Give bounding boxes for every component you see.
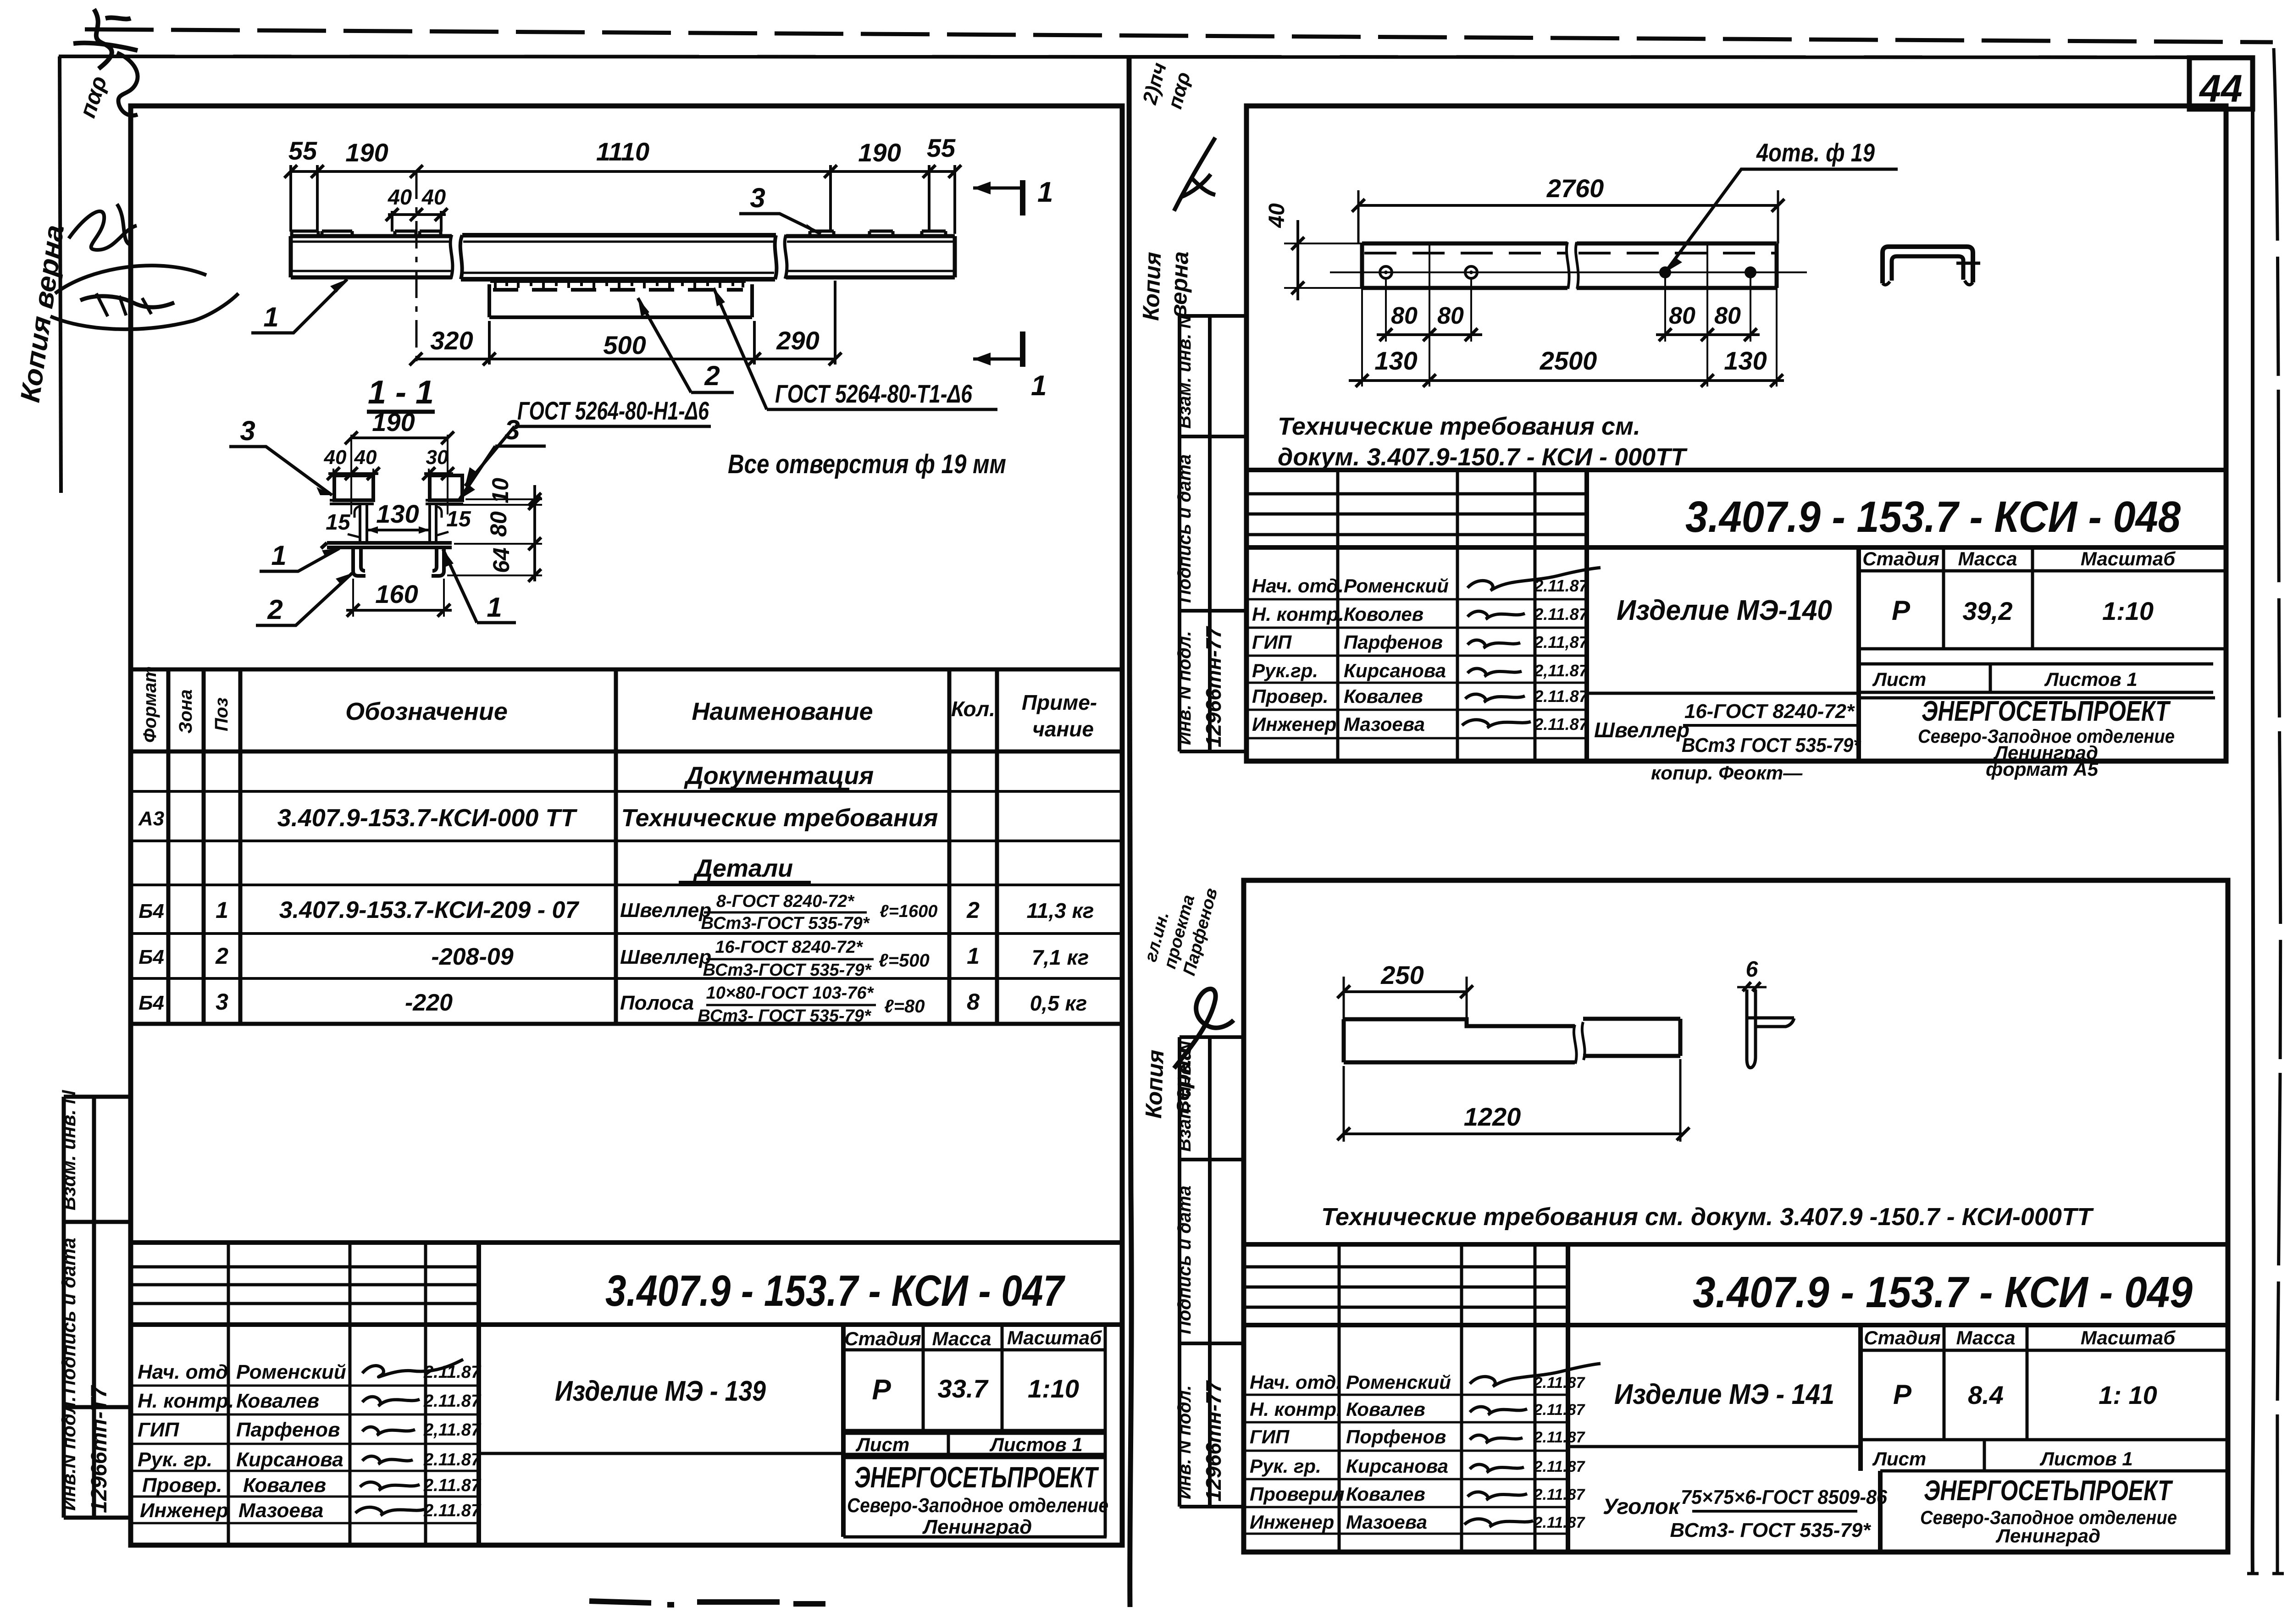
svg-text:1: 1 bbox=[487, 592, 502, 623]
svg-text:Кол.: Кол. bbox=[951, 697, 995, 721]
svg-text:3.407.9-153.7-КСИ-000 ТТ: 3.407.9-153.7-КСИ-000 ТТ bbox=[277, 804, 578, 832]
left stamp column boxes bbox=[64, 1097, 131, 1518]
handwriting signature squiggle left bbox=[69, 204, 137, 250]
svg-text:Взαм. инв. N: Взαм. инв. N bbox=[58, 1089, 79, 1210]
svg-text:3: 3 bbox=[216, 989, 228, 1015]
svg-text:40: 40 bbox=[421, 185, 446, 209]
svg-text:1:10: 1:10 bbox=[1028, 1374, 1079, 1403]
svg-text:ЭНЕРГОСЕТЬПРОЕКТ: ЭНЕРГОСЕТЬПРОЕКТ bbox=[1924, 1475, 2173, 1507]
svg-text:130: 130 bbox=[1374, 346, 1417, 375]
right sheet2 frame bbox=[1244, 880, 2228, 1552]
svg-text:Н. контр.: Н. контр. bbox=[138, 1390, 234, 1412]
svg-text:15: 15 bbox=[326, 510, 351, 535]
svg-text:2.11.87: 2.11.87 bbox=[1534, 1486, 1586, 1503]
svg-text:3.407.9 - 153.7 - КСИ - 048: 3.407.9 - 153.7 - КСИ - 048 bbox=[1685, 492, 2181, 541]
svg-text:Р: Р bbox=[1892, 595, 1911, 626]
svg-text:2.11.87: 2.11.87 bbox=[423, 1450, 482, 1469]
svg-text:1:10: 1:10 bbox=[2102, 597, 2154, 625]
svg-text:Полоса: Полоса bbox=[620, 992, 694, 1014]
svg-text:290: 290 bbox=[776, 326, 819, 355]
МЭ-140 holes bbox=[1380, 266, 1392, 278]
svg-text:2.11.87: 2.11.87 bbox=[423, 1476, 482, 1495]
svg-text:190: 190 bbox=[372, 408, 415, 436]
svg-text:2: 2 bbox=[215, 943, 228, 969]
svg-text:ГИП: ГИП bbox=[138, 1419, 180, 1441]
svg-text:формат А5: формат А5 bbox=[1986, 758, 2099, 780]
svg-text:ГИП: ГИП bbox=[1250, 1426, 1290, 1447]
svg-text:Масса: Масса bbox=[1956, 1327, 2016, 1348]
svg-text:Кирсанова: Кирсанова bbox=[236, 1448, 343, 1471]
svg-text:Обозначение: Обозначение bbox=[345, 698, 508, 725]
svg-text:Рук. гр.: Рук. гр. bbox=[138, 1448, 212, 1471]
svg-text:40: 40 bbox=[388, 185, 412, 209]
pad plates left (plan) bbox=[292, 231, 352, 236]
svg-text:Взам. инв. N: Взам. инв. N bbox=[1174, 315, 1195, 429]
svg-text:3.407.9 - 153.7 - КСИ - 047: 3.407.9 - 153.7 - КСИ - 047 bbox=[605, 1266, 1066, 1315]
channel bar left segment (plan) bbox=[291, 235, 453, 279]
svg-text:ВСт3 ГОСТ 535-79*: ВСт3 ГОСТ 535-79* bbox=[1682, 734, 1861, 757]
right title1 grid bbox=[1246, 470, 2226, 761]
svg-text:Лист: Лист bbox=[1872, 1448, 1926, 1469]
svg-text:Ковалев: Ковалев bbox=[1344, 685, 1423, 707]
МЭ-140 dims 80 80 right bbox=[1656, 333, 1760, 336]
svg-text:Все отверстия ф 19 мм: Все отверстия ф 19 мм bbox=[728, 449, 1006, 479]
svg-text:Формат: Формат bbox=[140, 666, 160, 743]
svg-text:0,5 кг: 0,5 кг bbox=[1030, 991, 1087, 1015]
svg-text:Зона: Зона bbox=[176, 689, 196, 734]
svg-text:Р: Р bbox=[1893, 1379, 1912, 1410]
svg-text:2: 2 bbox=[267, 594, 282, 625]
МЭ-140 dim 2760 bbox=[1358, 204, 1778, 207]
svg-text:320: 320 bbox=[430, 326, 473, 355]
svg-text:1: 1 bbox=[271, 540, 286, 571]
svg-text:Изделие МЭ - 141: Изделие МЭ - 141 bbox=[1614, 1379, 1834, 1410]
svg-text:160: 160 bbox=[375, 580, 418, 608]
svg-text:2760: 2760 bbox=[1546, 174, 1604, 203]
svg-text:Провер.: Провер. bbox=[142, 1474, 222, 1497]
svg-text:ℓ=500: ℓ=500 bbox=[879, 950, 930, 971]
section: plate pos3 right bbox=[430, 475, 462, 500]
svg-text:2.11.87: 2.11.87 bbox=[1534, 1429, 1586, 1446]
svg-text:2: 2 bbox=[966, 897, 980, 923]
svg-text:Роменский: Роменский bbox=[1344, 575, 1449, 597]
svg-text:Уголок: Уголок bbox=[1603, 1495, 1681, 1519]
plan axis centerline bbox=[415, 171, 418, 367]
svg-text:2.11.87: 2.11.87 bbox=[423, 1392, 482, 1411]
svg-text:Копия: Копия bbox=[1138, 252, 1166, 321]
left sheet frame bbox=[131, 106, 1122, 1545]
svg-text:1 - 1: 1 - 1 bbox=[368, 374, 434, 411]
svg-text:Ковалев: Ковалев bbox=[236, 1390, 319, 1412]
svg-text:12966тн-77: 12966тн-77 bbox=[1202, 1380, 1225, 1502]
svg-text:Инженер: Инженер bbox=[1250, 1511, 1334, 1533]
svg-text:Инв.N подл.: Инв.N подл. bbox=[58, 1396, 79, 1511]
svg-text:Приме-: Приме- bbox=[1022, 690, 1097, 714]
section dim 30 bbox=[424, 472, 453, 475]
svg-text:6: 6 bbox=[1746, 957, 1758, 982]
svg-text:Изделие МЭ - 139: Изделие МЭ - 139 bbox=[555, 1375, 766, 1407]
svg-text:Роменский: Роменский bbox=[1346, 1371, 1451, 1393]
section dim 40 40 bbox=[328, 472, 378, 475]
svg-text:2,11.87: 2,11.87 bbox=[423, 1420, 482, 1440]
channel bar right segment (plan) bbox=[785, 235, 955, 279]
svg-text:12966тн-77: 12966тн-77 bbox=[1202, 625, 1225, 747]
bottom handwritten dashes bbox=[589, 1601, 825, 1605]
svg-text:190: 190 bbox=[858, 138, 901, 167]
svg-text:Стадия: Стадия bbox=[1864, 1327, 1940, 1348]
stamp arc scribble bbox=[50, 265, 238, 329]
left page fold line bbox=[60, 56, 61, 493]
svg-text:ВСт3-ГОСТ 535-79*: ВСт3-ГОСТ 535-79* bbox=[701, 914, 870, 933]
right title1 signatures bbox=[1468, 568, 1601, 591]
svg-text:Наименование: Наименование bbox=[692, 698, 873, 725]
svg-text:2.11.87: 2.11.87 bbox=[1534, 687, 1589, 706]
svg-text:Швеллер: Швеллер bbox=[620, 946, 711, 968]
svg-text:ВСт3- ГОСТ 535-79*: ВСт3- ГОСТ 535-79* bbox=[1670, 1519, 1872, 1541]
svg-text:4отв. ф 19: 4отв. ф 19 bbox=[1756, 138, 1875, 167]
svg-text:8.4: 8.4 bbox=[1968, 1381, 2004, 1409]
МЭ-140 holes centerline bbox=[1330, 271, 1807, 273]
svg-text:64: 64 bbox=[488, 547, 514, 573]
svg-text:Листов 1: Листов 1 bbox=[2044, 668, 2138, 690]
svg-text:2.11.87: 2.11.87 bbox=[1534, 1458, 1586, 1475]
svg-text:Кирсанова: Кирсанова bbox=[1346, 1455, 1448, 1477]
svg-text:Парфенов: Парфенов bbox=[1344, 631, 1443, 653]
svg-text:Порфенов: Порфенов bbox=[1346, 1426, 1446, 1447]
svg-text:Рук.гр.: Рук.гр. bbox=[1252, 660, 1318, 681]
МЭ-141 dim 1220 bbox=[1344, 1132, 1683, 1135]
handwriting Нагр (sheet1 margin) bbox=[1174, 138, 1215, 211]
section: channel16 webs bbox=[360, 504, 436, 543]
svg-text:Б4: Б4 bbox=[138, 900, 164, 922]
svg-text:Инв. N подл.: Инв. N подл. bbox=[1174, 631, 1195, 745]
svg-text:Масштаб: Масштаб bbox=[2081, 548, 2176, 569]
svg-text:Швеллер: Швеллер bbox=[620, 899, 711, 922]
svg-text:15: 15 bbox=[446, 507, 471, 531]
svg-text:16-ГОСТ 8240-72*: 16-ГОСТ 8240-72* bbox=[1684, 700, 1855, 723]
section dim 190 bbox=[351, 436, 448, 439]
svg-text:ℓ=80: ℓ=80 bbox=[884, 996, 925, 1016]
svg-text:ℓ=1600: ℓ=1600 bbox=[880, 902, 937, 921]
svg-text:Нач. отд.: Нач. отд. bbox=[1250, 1371, 1341, 1393]
svg-text:2.11.87: 2.11.87 bbox=[423, 1363, 482, 1382]
svg-text:-220: -220 bbox=[405, 989, 453, 1016]
svg-text:Мазоева: Мазоева bbox=[1346, 1511, 1427, 1533]
svg-text:1: 1 bbox=[1031, 370, 1047, 402]
svg-text:Изделие МЭ-140: Изделие МЭ-140 bbox=[1617, 595, 1832, 626]
svg-text:ГИП: ГИП bbox=[1252, 631, 1292, 653]
svg-text:Ленинград: Ленинград bbox=[1995, 1525, 2100, 1547]
svg-text:ЭНЕРГОСЕТЬПРОЕКТ: ЭНЕРГОСЕТЬПРОЕКТ bbox=[1922, 696, 2171, 727]
svg-text:2,11.87: 2,11.87 bbox=[1534, 661, 1589, 680]
svg-text:Ковалев: Ковалев bbox=[243, 1474, 326, 1497]
section dim 130 bbox=[367, 529, 430, 531]
svg-text:Стадия: Стадия bbox=[1862, 548, 1939, 569]
svg-text:Масса: Масса bbox=[1958, 548, 2017, 569]
svg-text:2500: 2500 bbox=[1540, 346, 1597, 375]
svg-text:Подпись и дата: Подпись и дата bbox=[58, 1238, 79, 1394]
weld seam band (plan) bbox=[490, 280, 746, 283]
svg-text:1: 1 bbox=[967, 943, 980, 969]
right page edge line bbox=[2253, 57, 2254, 1575]
plan lower dimension 320 500 290 bbox=[416, 281, 835, 365]
svg-text:Ленинград: Ленинград bbox=[922, 1516, 1032, 1538]
svg-text:130: 130 bbox=[1724, 346, 1767, 375]
МЭ-140 dim 40 vertical bbox=[1296, 220, 1299, 300]
svg-text:40: 40 bbox=[354, 446, 377, 469]
svg-text:ВСт3- ГОСТ 535-79*: ВСт3- ГОСТ 535-79* bbox=[698, 1006, 872, 1026]
svg-text:1110: 1110 bbox=[596, 137, 649, 166]
left title signatures bbox=[362, 1359, 463, 1377]
svg-text:ГОСТ 5264-80-Т1-Δ6: ГОСТ 5264-80-Т1-Δ6 bbox=[775, 379, 973, 408]
svg-text:Нач. отд: Нач. отд bbox=[138, 1361, 228, 1383]
svg-text:Ковалев: Ковалев bbox=[1346, 1483, 1425, 1505]
spec table grid bbox=[131, 669, 1122, 1024]
section: plate pos3 left bbox=[334, 475, 373, 500]
svg-text:30: 30 bbox=[426, 446, 449, 469]
svg-text:Документация: Документация bbox=[684, 762, 874, 790]
right sheet2 stamp columns bbox=[1180, 1037, 1244, 1507]
svg-text:Н. контр.: Н. контр. bbox=[1250, 1398, 1342, 1420]
МЭ-140 bar bbox=[1362, 242, 1777, 289]
section mark 1 bottom bbox=[1020, 331, 1025, 367]
svg-text:80: 80 bbox=[1669, 303, 1695, 329]
svg-text:2.11.87: 2.11.87 bbox=[1534, 1374, 1586, 1392]
svg-text:80: 80 bbox=[1391, 303, 1418, 329]
svg-text:3.407.9 - 153.7 - КСИ - 049: 3.407.9 - 153.7 - КСИ - 049 bbox=[1693, 1268, 2193, 1317]
svg-text:Детали: Детали bbox=[693, 855, 793, 882]
section right extension lines bbox=[439, 499, 542, 575]
svg-text:Проверил: Проверил bbox=[1250, 1483, 1345, 1505]
svg-text:2.11.87: 2.11.87 bbox=[1534, 715, 1589, 734]
svg-text:1: 10: 1: 10 bbox=[2099, 1381, 2157, 1409]
svg-text:Провер.: Провер. bbox=[1252, 685, 1329, 707]
svg-text:Подпись и дата: Подпись и дата bbox=[1174, 454, 1195, 603]
svg-text:Инженер: Инженер bbox=[140, 1499, 228, 1522]
МЭ-141 angle cross-section bbox=[1747, 989, 1756, 1068]
plan dim ticks bbox=[284, 165, 961, 178]
svg-text:80: 80 bbox=[1714, 303, 1741, 329]
svg-text:Масса: Масса bbox=[932, 1328, 991, 1349]
svg-text:2.11,87: 2.11,87 bbox=[1534, 633, 1589, 652]
svg-text:10×80-ГОСТ 103-76*: 10×80-ГОСТ 103-76* bbox=[706, 983, 875, 1003]
svg-text:55: 55 bbox=[927, 133, 956, 162]
right title2 signatures bbox=[1470, 1364, 1601, 1386]
svg-text:12966тп-Т7: 12966тп-Т7 bbox=[87, 1385, 111, 1513]
section dim 160 bbox=[353, 579, 444, 617]
МЭ-140 channel symbol bbox=[1883, 247, 1973, 283]
svg-text:копир. Феокт—: копир. Феокт— bbox=[1651, 762, 1803, 784]
svg-text:ГОСТ 5264-80-Н1-Δ6: ГОСТ 5264-80-Н1-Δ6 bbox=[517, 396, 709, 425]
svg-text:2.11.87: 2.11.87 bbox=[1534, 1514, 1586, 1531]
page number box bbox=[2189, 58, 2253, 109]
svg-text:Листов 1: Листов 1 bbox=[989, 1434, 1083, 1455]
svg-text:55: 55 bbox=[288, 136, 317, 165]
svg-text:2.11.87: 2.11.87 bbox=[1534, 605, 1589, 624]
top solid border line bbox=[59, 56, 2253, 57]
svg-text:Масштаб: Масштаб bbox=[1007, 1327, 1102, 1348]
channel16 flange rectangle below (plan) bbox=[489, 284, 752, 317]
svg-text:А3: А3 bbox=[138, 807, 164, 830]
plan view main dimension line 55 190 1110 190 55 bbox=[291, 165, 955, 234]
svg-text:Листов 1: Листов 1 bbox=[2039, 1448, 2133, 1469]
right sheet1 frame bbox=[1246, 106, 2226, 761]
svg-text:2.11.87: 2.11.87 bbox=[423, 1501, 482, 1520]
svg-text:Северо-Заподное отделение: Северо-Заподное отделение bbox=[847, 1494, 1108, 1517]
svg-text:75×75×6-ГОСТ 8509-86: 75×75×6-ГОСТ 8509-86 bbox=[1681, 1486, 1887, 1508]
svg-text:Подпись и дата: Подпись и дата bbox=[1174, 1186, 1195, 1334]
svg-text:Р: Р bbox=[872, 1374, 891, 1406]
svg-text:докум. 3.407.9-150.7 - КСИ - 0: докум. 3.407.9-150.7 - КСИ - 000ТТ bbox=[1278, 443, 1688, 471]
МЭ-140 extension lines bbox=[1362, 243, 1777, 387]
svg-text:Масштаб: Масштаб bbox=[2081, 1327, 2176, 1348]
svg-text:Ковалев: Ковалев bbox=[1346, 1398, 1425, 1420]
svg-text:Кирсанова: Кирсанова bbox=[1344, 660, 1446, 681]
svg-text:Инв. N подл.: Инв. N подл. bbox=[1174, 1385, 1195, 1499]
svg-text:40: 40 bbox=[1265, 203, 1289, 228]
svg-text:190: 190 bbox=[345, 138, 388, 167]
svg-text:3: 3 bbox=[750, 182, 765, 213]
right title2 grid bbox=[1244, 1244, 2228, 1552]
svg-text:10: 10 bbox=[487, 478, 513, 503]
svg-text:Копия: Копия bbox=[1141, 1050, 1169, 1119]
svg-text:8: 8 bbox=[967, 989, 980, 1015]
svg-text:Инженер: Инженер bbox=[1252, 713, 1336, 735]
section: channel8 legs bbox=[353, 547, 444, 576]
svg-text:40: 40 bbox=[324, 446, 347, 469]
svg-text:250: 250 bbox=[1380, 961, 1423, 989]
svg-text:2.11.87: 2.11.87 bbox=[1534, 1401, 1586, 1419]
pad plates middle 40 40 (plan) bbox=[395, 231, 441, 236]
svg-text:-208-09: -208-09 bbox=[431, 944, 513, 970]
section: channel16 web bottom band bbox=[321, 543, 452, 548]
svg-text:Технические требования см.: Технические требования см. bbox=[1278, 413, 1640, 440]
svg-text:Поз: Поз bbox=[211, 697, 232, 731]
svg-text:чание: чание bbox=[1032, 717, 1094, 741]
svg-text:верна: верна bbox=[1168, 1047, 1196, 1114]
svg-text:Роменский: Роменский bbox=[236, 1361, 346, 1383]
svg-text:130: 130 bbox=[376, 499, 419, 528]
section mark 1 top bbox=[1020, 180, 1025, 215]
left title block grid bbox=[131, 1243, 1122, 1545]
svg-text:Стадия: Стадия bbox=[844, 1328, 921, 1349]
svg-text:3.407.9-153.7-КСИ-209 - 07: 3.407.9-153.7-КСИ-209 - 07 bbox=[279, 897, 580, 923]
svg-text:ЭНЕРГОСЕТЬПРОЕКТ: ЭНЕРГОСЕТЬПРОЕКТ bbox=[854, 1461, 1099, 1494]
svg-text:33.7: 33.7 bbox=[938, 1374, 989, 1403]
handwriting signature Даб (sheet2 margin) bbox=[1174, 989, 1234, 1068]
svg-text:1220: 1220 bbox=[1464, 1102, 1521, 1131]
svg-text:Парфенов: Парфенов bbox=[236, 1419, 340, 1441]
svg-text:Н. контр.: Н. контр. bbox=[1252, 603, 1344, 625]
svg-text:Швеллер: Швеллер bbox=[1594, 718, 1689, 742]
МЭ-140 bottom dims 130 2500 130 bbox=[1349, 379, 1784, 382]
section vertical dim line 10 80 64 bbox=[533, 485, 536, 581]
svg-text:80: 80 bbox=[486, 511, 511, 537]
svg-text:3: 3 bbox=[504, 414, 520, 445]
svg-text:1: 1 bbox=[263, 302, 278, 332]
svg-text:пαρ: пαρ bbox=[74, 73, 112, 121]
svg-text:500: 500 bbox=[603, 331, 646, 359]
svg-text:11,3 кг: 11,3 кг bbox=[1027, 899, 1094, 922]
pad plates right (plan) bbox=[810, 231, 946, 236]
МЭ-141 angle bar bbox=[1344, 1019, 1680, 1064]
svg-text:Б4: Б4 bbox=[138, 992, 164, 1014]
svg-text:верна: верна bbox=[1165, 251, 1193, 318]
section: channel16 flange lips bbox=[330, 500, 463, 504]
plan dim 40 40 bbox=[388, 211, 446, 232]
svg-text:Технические требования см. д: Технические требования см. докум. 3.407.… bbox=[1321, 1203, 2094, 1231]
МЭ-141 dim 250 bbox=[1344, 990, 1467, 993]
svg-text:3: 3 bbox=[240, 415, 255, 446]
svg-text:80: 80 bbox=[1437, 303, 1464, 329]
svg-text:2: 2 bbox=[704, 360, 720, 391]
svg-text:Коволев: Коволев bbox=[1344, 603, 1423, 625]
svg-text:1: 1 bbox=[1037, 177, 1053, 208]
svg-text:Технические требования: Технические требования bbox=[621, 804, 938, 832]
svg-text:16-ГОСТ 8240-72*: 16-ГОСТ 8240-72* bbox=[715, 938, 864, 957]
sheet divider line bbox=[1129, 56, 1131, 1607]
channel middle segment (plan) bbox=[460, 235, 777, 279]
svg-text:Мазоева: Мазоева bbox=[238, 1499, 323, 1522]
svg-text:Лист: Лист bbox=[1872, 668, 1926, 690]
svg-text:39,2: 39,2 bbox=[1963, 597, 2013, 625]
svg-text:Лист: Лист bbox=[855, 1434, 909, 1455]
svg-text:1: 1 bbox=[216, 897, 228, 923]
svg-text:ВСт3-ГОСТ 535-79*: ВСт3-ГОСТ 535-79* bbox=[703, 961, 872, 980]
svg-text:2.11.87: 2.11.87 bbox=[1534, 576, 1589, 595]
svg-text:Б4: Б4 bbox=[138, 946, 164, 968]
handwriting top-left scribble bbox=[73, 9, 138, 69]
svg-text:8-ГОСТ 8240-72*: 8-ГОСТ 8240-72* bbox=[716, 892, 855, 911]
svg-text:Рук. гр.: Рук. гр. bbox=[1250, 1455, 1321, 1477]
svg-text:Мазоева: Мазоева bbox=[1344, 713, 1425, 735]
svg-text:Нач. отд.: Нач. отд. bbox=[1252, 575, 1344, 597]
top dashed border line bbox=[85, 29, 2273, 42]
right sheet1 stamp columns bbox=[1180, 316, 1246, 751]
МЭ-140 dims 80 80 left bbox=[1377, 333, 1482, 336]
svg-text:7,1 кг: 7,1 кг bbox=[1032, 945, 1089, 969]
